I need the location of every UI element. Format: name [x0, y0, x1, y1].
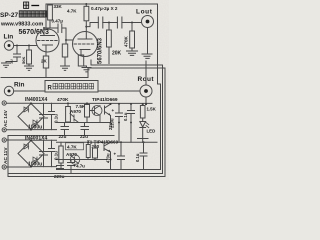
wire Rout shield: [145, 97, 147, 104]
transistor Q2 A970: [70, 114, 79, 123]
svg-text:Rin: Rin: [14, 82, 25, 89]
diode 4: [33, 157, 37, 162]
wires psu2 bottom: [6, 166, 56, 168]
svg-text:+4.7u: +4.7u: [74, 164, 86, 169]
svg-text:1000u: 1000u: [28, 162, 42, 168]
svg-text:IN4001X4: IN4001X4: [25, 97, 47, 103]
wires psu1 bottom: [6, 129, 56, 131]
bottom frame inner: [57, 169, 161, 171]
wire output: [86, 23, 98, 27]
wire box to Rout: [98, 90, 140, 92]
svg-text:470K: 470K: [57, 97, 69, 103]
diode 3: [24, 144, 29, 149]
capacitor C1: [44, 24, 66, 33]
wires psu2 top: [6, 139, 56, 141]
wire Lout shield: [147, 28, 149, 55]
svg-text:20K: 20K: [112, 51, 122, 57]
ground: [61, 66, 70, 70]
svg-text:SP-27: SP-27: [0, 12, 18, 19]
svg-text:A970: A970: [70, 109, 81, 114]
svg-text:0.1u: 0.1u: [54, 114, 59, 123]
ground Lout: [142, 54, 152, 58]
resistor 1.5K: [142, 103, 144, 105]
svg-text:4.7K: 4.7K: [67, 9, 77, 14]
svg-text:0.1u: 0.1u: [135, 153, 140, 162]
connector Lin: [4, 41, 13, 50]
capacitor 22u a: [61, 123, 69, 136]
capacitor 4.7u: [68, 160, 75, 173]
wire: [103, 22, 118, 24]
ground left: [2, 63, 11, 67]
svg-text:R: R: [48, 86, 53, 92]
title 图一: [24, 2, 39, 8]
transistor A970 reg2: [70, 155, 80, 165]
resistor 4.7K boxed label: [66, 143, 84, 150]
resistor cathode2: [78, 55, 83, 66]
svg-text:+: +: [112, 108, 115, 113]
svg-text:0.1u: 0.1u: [123, 112, 128, 121]
diode 2: [33, 120, 37, 125]
resistor grid leak 2: [65, 40, 67, 44]
capacitor 0.1u reg2 right: [143, 141, 145, 143]
top B+ rail: [46, 3, 158, 5]
frame right preamp and inner wrap: [158, 4, 161, 170]
capacitor C3: [117, 17, 122, 28]
resistor cathode1: [43, 56, 48, 68]
capacitor 470u reg2 right: [120, 141, 122, 143]
tube V1b: [73, 32, 98, 57]
svg-text:0.47µ: 0.47µ: [52, 19, 64, 24]
terminal AC2: [2, 128, 6, 132]
ground: [25, 64, 34, 70]
capacitor 0.1u reg1: [130, 103, 132, 105]
capacitor 0.1u psu2: [49, 140, 55, 166]
wire input: [14, 45, 37, 47]
bridge rectifier 1: [18, 104, 44, 130]
resistor divider reg2: [87, 142, 89, 144]
terminal AC3: [2, 138, 6, 142]
svg-text:1000u: 1000u: [28, 125, 42, 131]
svg-text:220u: 220u: [110, 118, 115, 128]
wires psu1 top: [6, 102, 152, 104]
resistor left reg2: [60, 142, 62, 146]
ground cathode2: [82, 68, 91, 72]
diode 1: [24, 107, 29, 112]
bus jog: [87, 68, 89, 78]
svg-text:33K: 33K: [54, 4, 63, 9]
bottom frame outer: [8, 173, 163, 175]
transistor TIP41 T1: [104, 142, 111, 169]
svg-text:0.47µ-2µ X 2: 0.47µ-2µ X 2: [91, 6, 118, 11]
resistor 33K: [48, 5, 53, 20]
resistor 470K out: [131, 22, 133, 24]
wire Lout-Rout vertical: [145, 61, 147, 85]
capacitor 220u reg2: [57, 166, 64, 169]
capacitor 22u b: [81, 123, 89, 136]
svg-text:Lin: Lin: [4, 34, 14, 41]
node grid2: [65, 39, 67, 41]
node plate1: [43, 27, 45, 29]
frame left: [7, 136, 9, 177]
capacitor C2: [98, 17, 103, 28]
svg-text:AC 11V: AC 11V: [3, 147, 9, 164]
wire reg1 bottom: [57, 122, 111, 124]
svg-text:470K: 470K: [124, 35, 129, 47]
svg-text:Lout: Lout: [136, 9, 153, 16]
svg-text:4.7K: 4.7K: [67, 145, 77, 150]
transistor Q3 driver: [92, 106, 102, 116]
node rail: [85, 3, 87, 5]
wire grid2 jog: [66, 28, 73, 40]
bus line B: [88, 67, 165, 69]
divider line: [8, 135, 114, 137]
connector Rin: [4, 86, 13, 95]
node plate2: [85, 26, 87, 28]
resistor 4.7K: [84, 6, 89, 20]
svg-text:22u: 22u: [80, 134, 88, 139]
ground 470K: [127, 51, 138, 55]
connector Rout: [140, 85, 152, 97]
wire plate lead V1a: [43, 28, 45, 36]
svg-text:LED: LED: [147, 129, 156, 134]
tube V1a: [36, 29, 59, 52]
wire rail drop: [46, 4, 50, 28]
svg-text:22u: 22u: [59, 134, 67, 139]
resistor 470K reg1: [67, 102, 69, 104]
bus line A: [91, 60, 163, 65]
capacitor 1000u psu1: [40, 103, 48, 129]
svg-text:TIP41/D669: TIP41/D669: [92, 97, 118, 103]
box R channel: [45, 81, 98, 93]
node: [16, 45, 18, 47]
svg-text:1.5K: 1.5K: [147, 107, 157, 112]
rail reg2: [57, 141, 158, 143]
transistor TIP41: [105, 104, 111, 122]
svg-text:50K: 50K: [21, 57, 26, 64]
svg-text:+: +: [114, 152, 117, 157]
bus left: [1, 77, 88, 79]
capacitor 1000u psu2: [40, 140, 48, 166]
frame right outer: [163, 65, 166, 177]
svg-text:0.1u: 0.1u: [54, 151, 59, 160]
capacitor 0.1u psu1: [49, 103, 55, 129]
diode LED: [140, 118, 146, 128]
bottom frame extra: [8, 176, 165, 178]
resistor 20K: [108, 22, 110, 24]
capacitor input: [6, 46, 21, 64]
svg-text:AC 14V: AC 14V: [3, 109, 9, 127]
wire rin: [14, 90, 45, 92]
capacitor 220u reg1: [118, 103, 120, 105]
terminal AC1: [2, 101, 6, 105]
node rout ground: [145, 103, 147, 105]
svg-text:470u: 470u: [106, 153, 111, 163]
svg-text:5670/6N3: 5670/6N3: [98, 37, 104, 64]
bridge rectifier 2: [18, 141, 44, 167]
wire: [122, 22, 142, 24]
svg-text:2K: 2K: [41, 59, 48, 64]
terminal AC4: [2, 165, 6, 169]
resistor 50K input: [28, 46, 30, 51]
connector Lout: [142, 16, 154, 28]
wire reg2 mid: [57, 159, 108, 161]
svg-text:www.v9833.com: www.v9833.com: [0, 22, 43, 28]
